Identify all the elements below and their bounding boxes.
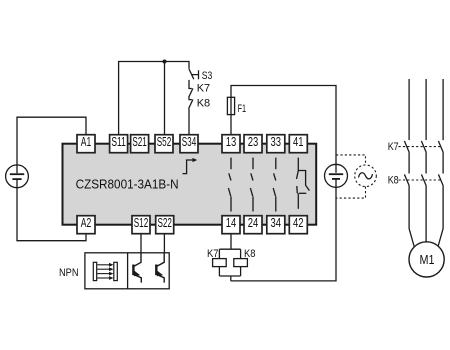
svg-text:M1: M1 (420, 252, 435, 267)
svg-text:33: 33 (271, 135, 282, 149)
svg-text:41: 41 (293, 135, 304, 149)
svg-text:S22: S22 (157, 216, 172, 230)
svg-text:K7: K7 (197, 82, 210, 94)
svg-text:S34: S34 (182, 135, 197, 149)
svg-text:24: 24 (248, 216, 259, 230)
svg-text:14: 14 (226, 216, 237, 230)
svg-text:S12: S12 (134, 216, 149, 230)
svg-text:13: 13 (226, 135, 237, 149)
svg-text:A1: A1 (81, 135, 92, 149)
svg-text:23: 23 (248, 135, 259, 149)
svg-text:S3: S3 (202, 70, 213, 82)
svg-text:K8: K8 (388, 175, 399, 187)
svg-text:42: 42 (293, 216, 304, 230)
svg-text:34: 34 (271, 216, 282, 230)
svg-text:K7: K7 (207, 248, 219, 260)
svg-text:F1: F1 (238, 103, 247, 115)
svg-text:S21: S21 (132, 135, 147, 149)
svg-text:A2: A2 (81, 216, 92, 230)
svg-text:K8: K8 (197, 97, 210, 109)
svg-text:S11: S11 (111, 135, 126, 149)
svg-text:NPN: NPN (59, 267, 79, 279)
svg-text:K7: K7 (388, 141, 399, 153)
svg-text:S52: S52 (157, 135, 172, 149)
svg-text:CZSR8001-3A1B-N: CZSR8001-3A1B-N (76, 177, 179, 192)
svg-text:K8: K8 (244, 248, 256, 260)
